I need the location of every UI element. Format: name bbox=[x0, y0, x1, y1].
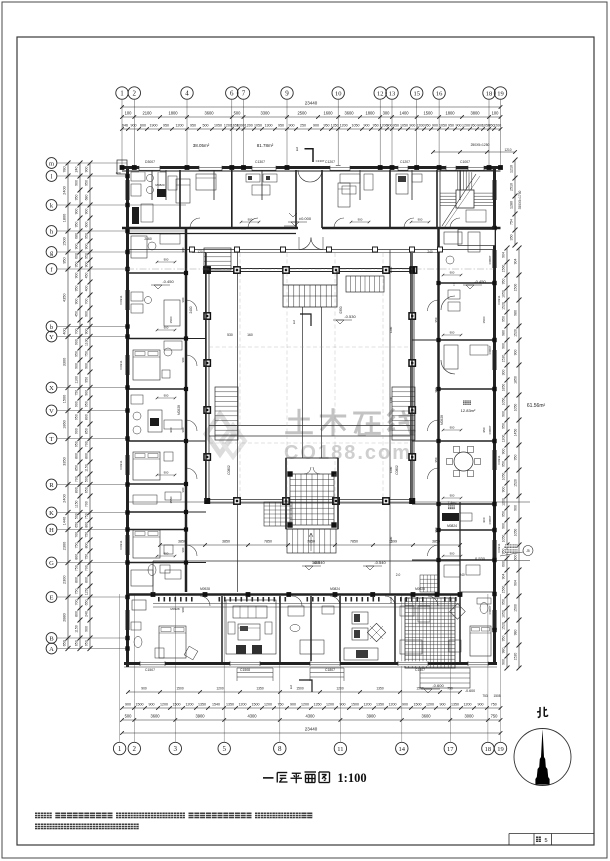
svg-text:700: 700 bbox=[84, 565, 88, 571]
svg-text:1450: 1450 bbox=[513, 429, 517, 437]
svg-text:M0824: M0824 bbox=[330, 587, 340, 591]
svg-text:900: 900 bbox=[84, 167, 88, 173]
svg-text:1500: 1500 bbox=[513, 604, 517, 612]
svg-text:1500: 1500 bbox=[351, 702, 359, 706]
svg-text:900: 900 bbox=[74, 428, 78, 434]
svg-text:1400: 1400 bbox=[399, 110, 409, 115]
svg-text:900: 900 bbox=[181, 607, 185, 612]
svg-text:1500: 1500 bbox=[173, 702, 181, 706]
svg-text:500: 500 bbox=[74, 513, 78, 519]
svg-text:f: f bbox=[50, 266, 53, 273]
svg-text:3600: 3600 bbox=[150, 713, 160, 718]
svg-text:1500: 1500 bbox=[482, 316, 486, 323]
main gate double door arcs bbox=[299, 238, 311, 250]
svg-text:900: 900 bbox=[164, 471, 169, 475]
south porch steps center-left bbox=[237, 667, 273, 669]
svg-text:1210: 1210 bbox=[509, 165, 513, 173]
svg-text:1200: 1200 bbox=[389, 266, 393, 273]
svg-text:754: 754 bbox=[509, 219, 513, 225]
svg-text:C1508: C1508 bbox=[240, 668, 250, 672]
svg-text:900: 900 bbox=[84, 363, 88, 369]
svg-text:900: 900 bbox=[402, 702, 408, 706]
svg-text:1520: 1520 bbox=[513, 329, 517, 337]
svg-text:900: 900 bbox=[513, 505, 517, 511]
svg-text:1800: 1800 bbox=[445, 110, 455, 115]
svg-text:700: 700 bbox=[74, 476, 78, 482]
svg-text:350: 350 bbox=[509, 235, 513, 241]
svg-text:800: 800 bbox=[74, 487, 78, 493]
svg-text:950: 950 bbox=[448, 123, 454, 127]
svg-text:650: 650 bbox=[84, 487, 88, 493]
top left courtyard stair bbox=[204, 248, 231, 270]
svg-text:980: 980 bbox=[501, 330, 505, 336]
svg-text:500: 500 bbox=[125, 713, 133, 718]
svg-text:980: 980 bbox=[513, 310, 517, 316]
svg-text:300: 300 bbox=[501, 370, 505, 376]
svg-text:753: 753 bbox=[482, 694, 488, 698]
svg-text:950: 950 bbox=[434, 457, 438, 462]
svg-text:A: A bbox=[49, 646, 54, 653]
svg-text:1200: 1200 bbox=[239, 702, 247, 706]
svg-text:1560: 1560 bbox=[501, 265, 505, 273]
west wing bed room3 bbox=[133, 530, 160, 558]
svg-text:C0911: C0911 bbox=[497, 455, 501, 464]
courtyard inner edge east bbox=[389, 250, 391, 594]
svg-text:1850: 1850 bbox=[501, 384, 505, 392]
interior wall columns east bbox=[436, 281, 440, 285]
svg-text:900: 900 bbox=[74, 363, 78, 369]
svg-text:CO188.com: CO188.com bbox=[284, 442, 412, 464]
svg-text:3000: 3000 bbox=[464, 713, 474, 718]
west wing bathroom fixtures bbox=[131, 395, 143, 404]
svg-text:38.05m²: 38.05m² bbox=[193, 143, 210, 148]
svg-text:M0928: M0928 bbox=[440, 415, 444, 425]
west wing partition walls bbox=[128, 272, 186, 274]
svg-text:900: 900 bbox=[248, 218, 253, 222]
svg-text:700: 700 bbox=[84, 441, 88, 447]
svg-text:900: 900 bbox=[164, 394, 169, 398]
east wing wardrobe symbols bbox=[448, 290, 460, 299]
svg-text:680: 680 bbox=[84, 195, 88, 201]
svg-text:17: 17 bbox=[447, 746, 454, 753]
west wing door arcs to verandah bbox=[186, 300, 197, 311]
svg-text:19: 19 bbox=[497, 746, 504, 753]
svg-text:1050: 1050 bbox=[501, 290, 505, 298]
svg-text:850: 850 bbox=[74, 465, 78, 471]
svg-text:750: 750 bbox=[84, 351, 88, 357]
svg-text:-0.450: -0.450 bbox=[162, 279, 174, 284]
svg-text:900: 900 bbox=[450, 552, 455, 556]
level mark -0.450 west bbox=[154, 285, 162, 289]
north hall level line bbox=[284, 225, 296, 227]
west wing inner verandah wall bbox=[205, 253, 207, 500]
svg-text:81.78m²: 81.78m² bbox=[257, 143, 274, 148]
south wing door arcs bbox=[200, 596, 210, 606]
svg-text:1350: 1350 bbox=[256, 687, 264, 691]
svg-text:3850: 3850 bbox=[432, 540, 440, 544]
svg-text:-0.600: -0.600 bbox=[465, 689, 475, 693]
svg-text:900: 900 bbox=[169, 427, 173, 432]
svg-text:1: 1 bbox=[118, 745, 122, 753]
svg-text:350X5=1750: 350X5=1750 bbox=[518, 190, 522, 209]
east wing door arcs to verandah bbox=[428, 300, 439, 311]
svg-text:900: 900 bbox=[84, 244, 88, 250]
level mark triangle top hall bbox=[289, 213, 297, 217]
southeast bathroom bbox=[480, 603, 488, 614]
svg-text:4350: 4350 bbox=[62, 294, 66, 302]
detail callout right bbox=[505, 545, 508, 548]
svg-text:C0911: C0911 bbox=[119, 360, 123, 369]
top wall columns bbox=[120, 165, 125, 170]
svg-text:K: K bbox=[49, 510, 54, 517]
svg-text:250: 250 bbox=[300, 123, 306, 127]
south wing bottom outer wall bbox=[124, 662, 497, 665]
svg-text:900: 900 bbox=[478, 702, 484, 706]
svg-text:5: 5 bbox=[222, 745, 226, 753]
north arrow spike bbox=[535, 729, 549, 785]
svg-text:900: 900 bbox=[501, 487, 505, 493]
svg-text:1:100: 1:100 bbox=[337, 771, 366, 785]
svg-text:1200: 1200 bbox=[245, 123, 253, 127]
svg-text:1200: 1200 bbox=[160, 702, 168, 706]
right colonnade stair bbox=[392, 387, 415, 440]
svg-text:600: 600 bbox=[74, 253, 78, 259]
west outer wall window lines bbox=[125, 180, 127, 200]
bottom center pavilion bbox=[286, 458, 338, 529]
level mark -0.530 courtyard bbox=[336, 320, 344, 324]
svg-text:1200: 1200 bbox=[389, 396, 393, 403]
small hatch southeast mid bbox=[420, 575, 438, 592]
svg-text:680: 680 bbox=[74, 233, 78, 239]
svg-text:C1307: C1307 bbox=[255, 160, 265, 164]
courtyard horizontal dashed lines bbox=[209, 346, 410, 348]
svg-text:1050: 1050 bbox=[501, 535, 505, 543]
svg-text:1050: 1050 bbox=[513, 404, 517, 412]
svg-text:900: 900 bbox=[456, 123, 462, 127]
svg-text:950: 950 bbox=[84, 377, 88, 383]
svg-text:1200: 1200 bbox=[340, 123, 348, 127]
svg-text:1200: 1200 bbox=[464, 702, 472, 706]
svg-text:900: 900 bbox=[418, 218, 423, 222]
svg-text:950: 950 bbox=[324, 123, 330, 127]
svg-text:M0824: M0824 bbox=[447, 524, 457, 528]
svg-text:950: 950 bbox=[84, 640, 88, 646]
svg-text:1508: 1508 bbox=[493, 694, 500, 698]
svg-text:650: 650 bbox=[62, 640, 66, 646]
top dimension chain row 1 bbox=[122, 116, 501, 118]
svg-text:M0928: M0928 bbox=[200, 587, 210, 591]
svg-text:900: 900 bbox=[74, 209, 78, 215]
svg-text:400: 400 bbox=[84, 286, 88, 292]
svg-text:3600: 3600 bbox=[204, 110, 214, 115]
top center entrance stair bbox=[283, 285, 337, 307]
svg-text:850: 850 bbox=[84, 428, 88, 434]
svg-text:1500: 1500 bbox=[416, 687, 424, 691]
svg-text:900: 900 bbox=[440, 702, 446, 706]
svg-text:1800: 1800 bbox=[168, 110, 178, 115]
svg-text:1300: 1300 bbox=[265, 123, 273, 127]
svg-text:M0820: M0820 bbox=[155, 183, 165, 187]
svg-text:650: 650 bbox=[74, 522, 78, 528]
svg-text:700: 700 bbox=[74, 600, 78, 606]
svg-text:1200: 1200 bbox=[389, 326, 393, 333]
svg-text:1350: 1350 bbox=[314, 702, 322, 706]
right dimension chain lower bbox=[506, 248, 508, 668]
svg-text:1150: 1150 bbox=[74, 500, 78, 508]
svg-text:3: 3 bbox=[174, 745, 178, 753]
courtyard colonnade right beam bbox=[410, 252, 412, 503]
svg-text:1050: 1050 bbox=[254, 123, 262, 127]
svg-text:23440: 23440 bbox=[305, 726, 318, 731]
svg-text:1350: 1350 bbox=[331, 123, 339, 127]
left axis bubbles column bbox=[46, 158, 57, 169]
svg-text:1: 1 bbox=[290, 685, 293, 691]
svg-text:C0911: C0911 bbox=[119, 460, 123, 469]
svg-text:3600: 3600 bbox=[344, 110, 354, 115]
svg-text:750: 750 bbox=[74, 565, 78, 571]
svg-text:B: B bbox=[49, 635, 54, 642]
svg-text:2510: 2510 bbox=[509, 183, 513, 191]
south wing living room set bbox=[226, 600, 276, 654]
svg-text:8: 8 bbox=[278, 745, 282, 753]
svg-text:1350: 1350 bbox=[376, 687, 384, 691]
svg-text:900: 900 bbox=[358, 218, 363, 222]
southeast outdoor stair grid bbox=[405, 598, 455, 668]
svg-text:900: 900 bbox=[74, 339, 78, 345]
svg-text:500: 500 bbox=[203, 123, 209, 127]
svg-text:1200: 1200 bbox=[389, 466, 393, 473]
svg-text:1560: 1560 bbox=[501, 586, 505, 594]
svg-text:950: 950 bbox=[62, 257, 66, 263]
west wing east wall bbox=[185, 228, 188, 592]
svg-text:1150: 1150 bbox=[84, 588, 88, 596]
svg-text:900: 900 bbox=[501, 523, 505, 529]
svg-text:3300: 3300 bbox=[62, 358, 66, 366]
svg-text:1350: 1350 bbox=[226, 702, 234, 706]
svg-text:G: G bbox=[49, 560, 54, 567]
svg-text:950: 950 bbox=[84, 253, 88, 259]
svg-text:900: 900 bbox=[482, 517, 486, 522]
svg-text:1200: 1200 bbox=[426, 702, 434, 706]
svg-text:900: 900 bbox=[501, 659, 505, 665]
east wing bedroom label bbox=[463, 401, 467, 405]
svg-text:646: 646 bbox=[122, 123, 128, 127]
south outdoor steps bbox=[420, 668, 470, 688]
svg-text:800: 800 bbox=[84, 414, 88, 420]
courtyard gallery beam bbox=[207, 268, 413, 270]
svg-text:1440: 1440 bbox=[62, 517, 66, 525]
svg-text:14: 14 bbox=[399, 746, 406, 753]
svg-text:1200: 1200 bbox=[186, 702, 194, 706]
pavilion corner columns bbox=[287, 471, 292, 476]
svg-text:-0.450: -0.450 bbox=[474, 279, 486, 284]
svg-text:980: 980 bbox=[501, 648, 505, 654]
courtyard colonnade top beam bbox=[128, 249, 494, 251]
svg-text:950: 950 bbox=[74, 195, 78, 201]
gallery columns sides bbox=[204, 313, 210, 319]
svg-text:950: 950 bbox=[482, 427, 486, 432]
svg-text:900: 900 bbox=[513, 350, 517, 356]
southwest corner toilet room fixtures bbox=[148, 565, 156, 576]
southeast rooms partition bbox=[459, 502, 461, 594]
svg-text:C1507: C1507 bbox=[415, 668, 425, 672]
svg-text:7850: 7850 bbox=[350, 540, 358, 544]
svg-text:2400: 2400 bbox=[189, 306, 193, 313]
left dimension chain inner bbox=[89, 163, 91, 649]
svg-text:1860: 1860 bbox=[62, 420, 66, 428]
svg-text:1: 1 bbox=[295, 146, 298, 153]
south porch steps center-right bbox=[310, 667, 344, 669]
svg-text:800: 800 bbox=[84, 453, 88, 459]
svg-text:950: 950 bbox=[74, 414, 78, 420]
interior wall columns west bbox=[184, 271, 188, 275]
svg-text:C0802: C0802 bbox=[227, 465, 231, 475]
svg-text:1050: 1050 bbox=[513, 529, 517, 537]
svg-text:900: 900 bbox=[290, 702, 296, 706]
svg-text:900: 900 bbox=[84, 626, 88, 632]
svg-text:900: 900 bbox=[450, 331, 455, 335]
north wing door arcs bbox=[190, 218, 200, 228]
svg-text:800: 800 bbox=[74, 611, 78, 617]
svg-text:3600: 3600 bbox=[312, 561, 320, 565]
svg-text:C1007: C1007 bbox=[460, 160, 470, 164]
east outer wall bbox=[493, 166, 496, 665]
svg-text:C0911: C0911 bbox=[119, 540, 123, 549]
svg-text:3600: 3600 bbox=[421, 713, 431, 718]
svg-text:3900: 3900 bbox=[366, 713, 376, 718]
svg-text:980: 980 bbox=[513, 630, 517, 636]
svg-text:1050: 1050 bbox=[439, 123, 447, 127]
south wing top wall bbox=[128, 593, 460, 596]
east wing extra fixtures bbox=[444, 232, 462, 244]
svg-text:1050: 1050 bbox=[501, 610, 505, 618]
svg-text:E: E bbox=[50, 594, 54, 601]
svg-text:900: 900 bbox=[181, 427, 185, 432]
pavilion west side stair hatch bbox=[264, 502, 292, 526]
svg-text:11: 11 bbox=[337, 746, 343, 753]
svg-text:750: 750 bbox=[74, 390, 78, 396]
svg-text:1200: 1200 bbox=[364, 702, 372, 706]
svg-text:1050: 1050 bbox=[214, 123, 222, 127]
svg-text:950: 950 bbox=[84, 180, 88, 186]
svg-text:950: 950 bbox=[74, 222, 78, 228]
svg-text:3850: 3850 bbox=[178, 540, 186, 544]
svg-text:950: 950 bbox=[501, 423, 505, 429]
svg-text:1200: 1200 bbox=[216, 687, 224, 691]
svg-text:C0911: C0911 bbox=[497, 543, 501, 552]
svg-text:120: 120 bbox=[115, 171, 120, 175]
north wing top wall second line bbox=[122, 170, 501, 172]
svg-text:1520: 1520 bbox=[501, 302, 505, 310]
svg-text:61.56m²: 61.56m² bbox=[527, 403, 546, 409]
svg-text:3300: 3300 bbox=[260, 110, 270, 115]
svg-text:900: 900 bbox=[125, 702, 131, 706]
svg-text:1: 1 bbox=[293, 320, 296, 326]
svg-text:2: 2 bbox=[133, 90, 137, 98]
drawing title bbox=[263, 777, 274, 779]
svg-text:R: R bbox=[49, 482, 54, 489]
svg-text:↕: ↕ bbox=[453, 282, 456, 288]
svg-text:1500: 1500 bbox=[136, 702, 144, 706]
north wing bed left room bbox=[176, 179, 190, 203]
north wing beds and sofas bbox=[196, 174, 216, 190]
svg-text:240: 240 bbox=[74, 167, 78, 173]
svg-text:-0.600: -0.600 bbox=[432, 683, 444, 688]
svg-text:900: 900 bbox=[131, 123, 137, 127]
svg-text:C0807: C0807 bbox=[488, 345, 492, 354]
svg-text:1500: 1500 bbox=[513, 284, 517, 292]
svg-text:600: 600 bbox=[140, 123, 146, 127]
central courtyard path vertical bbox=[302, 307, 304, 458]
svg-text:1500: 1500 bbox=[252, 702, 260, 706]
svg-text:2880: 2880 bbox=[62, 613, 66, 621]
svg-text:900: 900 bbox=[181, 247, 185, 252]
svg-text:4: 4 bbox=[185, 90, 189, 98]
svg-text:500: 500 bbox=[84, 476, 88, 482]
svg-text:950: 950 bbox=[74, 286, 78, 292]
svg-text:900: 900 bbox=[432, 123, 438, 127]
west wall columns bbox=[125, 174, 129, 178]
svg-text:900: 900 bbox=[74, 401, 78, 407]
svg-text:900: 900 bbox=[501, 411, 505, 417]
svg-text:H: H bbox=[49, 527, 54, 534]
veranda railing south bbox=[158, 597, 160, 602]
east wall columns bbox=[492, 226, 496, 230]
north entrance door arcs bbox=[298, 170, 310, 182]
svg-text:C1807: C1807 bbox=[325, 668, 335, 672]
svg-text:1050: 1050 bbox=[400, 123, 408, 127]
svg-text:15: 15 bbox=[413, 90, 420, 97]
svg-text:C0911: C0911 bbox=[119, 295, 123, 304]
svg-text:900: 900 bbox=[84, 329, 88, 335]
svg-text:900: 900 bbox=[74, 244, 78, 250]
svg-text:750: 750 bbox=[491, 713, 499, 718]
svg-text:1200: 1200 bbox=[462, 123, 470, 127]
north wing ne balcony bbox=[458, 230, 495, 246]
svg-text:1200: 1200 bbox=[389, 596, 393, 603]
svg-text:950: 950 bbox=[393, 123, 399, 127]
svg-text:7850: 7850 bbox=[264, 540, 272, 544]
svg-text:900: 900 bbox=[501, 343, 505, 349]
southeast bed bbox=[470, 626, 491, 656]
svg-text:1500: 1500 bbox=[176, 687, 184, 691]
svg-text:1550: 1550 bbox=[169, 496, 173, 503]
top right courtyard stair bbox=[346, 276, 384, 292]
watermark text tumu zaixian bbox=[288, 418, 310, 421]
svg-text:500: 500 bbox=[234, 110, 242, 115]
north label bbox=[539, 707, 541, 717]
svg-text:750: 750 bbox=[84, 532, 88, 538]
svg-text:C0807: C0807 bbox=[488, 515, 492, 524]
north wing top outer wall bbox=[122, 166, 501, 169]
svg-text:1520: 1520 bbox=[513, 653, 517, 661]
east wing partition wall extensions to verandah bbox=[412, 339, 439, 341]
level mark -0.600 southeast bbox=[424, 689, 432, 693]
svg-text:904: 904 bbox=[513, 580, 517, 586]
bottom inner dimension row bbox=[128, 691, 460, 693]
svg-text:900: 900 bbox=[181, 357, 185, 362]
svg-text:950: 950 bbox=[84, 401, 88, 407]
east wing west wall bbox=[437, 228, 440, 594]
top overall dimension 23440 bbox=[122, 106, 501, 108]
svg-text:6: 6 bbox=[230, 90, 234, 98]
svg-text:-0.530: -0.530 bbox=[344, 314, 356, 319]
svg-text:M0928: M0928 bbox=[170, 607, 180, 611]
svg-text:7.4m²: 7.4m² bbox=[448, 501, 458, 505]
interior dim tick clusters bbox=[157, 261, 175, 263]
svg-text:16: 16 bbox=[436, 90, 443, 97]
svg-text:k: k bbox=[50, 202, 54, 209]
